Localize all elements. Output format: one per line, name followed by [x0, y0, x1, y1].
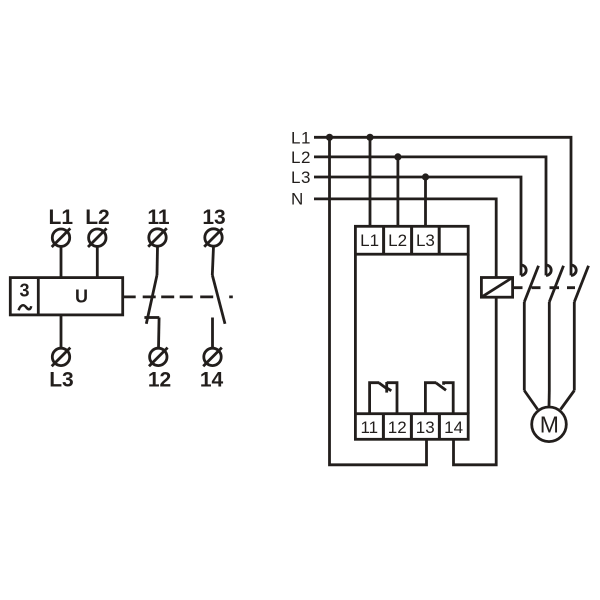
- svg-text:L2: L2: [388, 231, 407, 250]
- svg-text:L3: L3: [416, 231, 435, 250]
- svg-text:L2: L2: [291, 148, 311, 167]
- svg-text:L3: L3: [291, 168, 311, 187]
- svg-text:L2: L2: [85, 206, 110, 229]
- svg-text:14: 14: [444, 418, 463, 437]
- svg-text:11: 11: [147, 206, 170, 229]
- svg-text:L1: L1: [49, 206, 74, 229]
- svg-text:11: 11: [360, 418, 378, 437]
- svg-text:13: 13: [416, 418, 435, 437]
- svg-text:M: M: [540, 411, 559, 437]
- svg-text:3: 3: [19, 281, 29, 301]
- svg-text:12: 12: [388, 418, 407, 437]
- svg-text:L1: L1: [360, 231, 379, 250]
- svg-text:U: U: [75, 286, 88, 306]
- svg-text:12: 12: [148, 368, 171, 391]
- svg-text:L1: L1: [291, 128, 311, 147]
- svg-text:L3: L3: [49, 368, 74, 391]
- svg-text:13: 13: [202, 206, 225, 229]
- svg-text:14: 14: [200, 368, 224, 391]
- svg-text:N: N: [291, 189, 304, 208]
